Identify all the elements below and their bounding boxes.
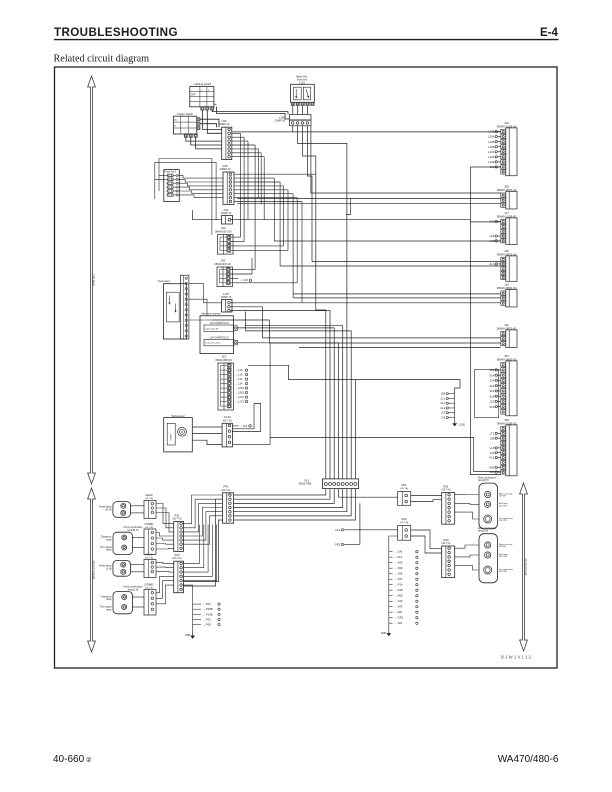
svg-text:→ J13: → J13 [239,424,248,428]
wire HEAD2 to P02 [156,562,174,565]
connector F05 [220,164,234,205]
svg-text:(02-?-A): (02-?-A) [173,557,182,560]
svg-text:24V 8W: 24V 8W [499,546,506,548]
svg-text:OFF: OFF [191,95,196,97]
wire vertical v280 [279,182,281,266]
wire motor spare pin to J05 [311,126,501,193]
wire F04 row [191,210,193,220]
svg-text:→ GR1: → GR1 [394,616,403,620]
svg-text:lamp: lamp [106,549,112,552]
ground P08 [192,633,194,636]
wire R31 to rear lamp RH [455,494,479,496]
wire vertical v261 [260,153,262,204]
labels J15 pins [235,368,248,404]
svg-text:L100: L100 [279,115,286,119]
svg-text:→ R14: → R14 [394,583,403,587]
svg-text:→ FF1: → FF1 [394,555,403,559]
svg-text:→ L263: → L263 [235,386,245,390]
wire vertical v297 [296,198,298,283]
ground L100 [454,420,456,423]
svg-text:→ P13B: → P13B [203,612,213,616]
svg-text:→ R18: → R18 [394,588,403,592]
connector COMB1 [144,522,156,555]
wire J03 pins [231,269,256,271]
svg-text:L103: L103 [488,150,495,154]
svg-text:08040-0071-00: 08040-0071-00 [215,230,232,233]
svg-text:COMB1: COMB1 [144,522,154,526]
wire J02 pins [231,236,240,238]
svg-text:FF2: FF2 [336,528,341,532]
svg-text:→ P01: → P01 [203,602,212,606]
wire to J19 [293,293,501,295]
svg-text:→ L14: → L14 [235,382,243,386]
wire vertical v255 [254,145,256,270]
wire vertical v274 to J17 row [274,178,501,241]
connector J07 [489,354,517,416]
cab harness arrow [88,76,96,484]
wire L107 to J19 pin3 [230,302,501,304]
svg-text:CNMP-10: CNMP-10 [221,296,232,299]
connector R30 [442,538,455,578]
wire L93 jogs [232,132,241,134]
motor front limit L131 [291,76,315,106]
svg-text:CL1: CL1 [440,401,445,405]
wire monitor L52 to bundle [238,328,335,479]
wire vertical v244 [243,137,245,241]
connector P02 [173,553,184,593]
wire R01 to R31 [411,495,442,497]
svg-text:LT1: LT1 [490,431,495,435]
svg-text:L86: L86 [441,392,446,396]
svg-text:24V 27W: 24V 27W [499,520,507,522]
wire L100 pin4 to J10 [307,126,312,262]
wire fuse rows to F05 [178,175,223,178]
svg-text:Rear combination: Rear combination [478,527,497,530]
connector FP1 [222,485,234,524]
wire power switch pins to L93 [186,137,222,141]
svg-text:S15: S15 [489,384,494,388]
signal name list R ground [389,550,418,630]
svg-text:WA470/480-6: WA470/480-6 [498,754,559,765]
wire tachometer to C140 [192,426,222,428]
wire monitor L54 to bundle [238,343,339,479]
wire vertical v293 [292,194,294,298]
svg-text:→ P06: → P06 [203,623,212,627]
wire F05 jogs [234,173,316,175]
svg-text:REAR FRAME: REAR FRAME [524,558,528,575]
label group L100 node [440,392,454,421]
svg-text:(02-?-A): (02-?-A) [222,489,231,492]
svg-text:S14: S14 [489,379,494,383]
svg-text:CL1: CL1 [440,396,445,400]
svg-text:→ L15: → L15 [235,373,243,377]
wire L93 to J04 [233,131,501,133]
wire vertical v264 [263,157,265,220]
wire lighting switch pins to L93 [202,110,221,129]
svg-text:R08: R08 [381,631,387,635]
svg-text:L104: L104 [488,155,495,159]
svg-text:Fuse No.1: Fuse No.1 [165,170,178,174]
wire motor to L100 [292,106,294,115]
wire comb lamp RH to COMB1 [133,537,145,539]
diagram border frame [55,67,558,668]
wire fuse strip feeds [189,283,222,302]
wire COMB2 to P02 [156,576,174,592]
wire vertical v288 [287,190,289,251]
svg-text:L108: L108 [488,140,495,144]
wire junction drop to FF2 GR1 [359,503,361,544]
svg-text:(02-?-A): (02-?-A) [400,487,408,490]
svg-text:P08: P08 [185,633,190,637]
svg-text:COMB2: COMB2 [144,582,154,586]
ground list P ground [193,602,221,632]
head lamp LH [99,561,130,577]
wire C140 loop [232,404,254,429]
svg-text:S21: S21 [489,389,494,393]
svg-text:AL1: AL1 [489,262,494,266]
head lamp RH [99,502,130,518]
connector J15 [215,355,233,410]
svg-text:CNMP-10: CNMP-10 [220,168,231,171]
svg-text:J17: J17 [441,411,446,415]
svg-text:→ L06: → L06 [394,550,402,554]
power switch [174,112,201,138]
svg-text:→ P03: → P03 [203,617,212,621]
svg-text:J16: J16 [441,415,446,419]
svg-text:24V 21W: 24V 21W [499,506,507,508]
svg-text:(02-?-A): (02-?-A) [442,489,451,492]
svg-text:S66: S66 [489,465,494,469]
connector J05 [497,185,517,209]
connector J04 [488,121,517,176]
connector J11 [497,323,517,347]
wire C140 top to J13 label [232,425,238,427]
wire P02 staircase [184,525,200,564]
svg-text:R01: R01 [402,483,407,487]
svg-text:B J W 1 4 1 1 2: B J W 1 4 1 1 2 [501,655,532,660]
wire L100 pin3 route [303,126,326,479]
svg-text:CNMP-10: CNMP-10 [275,120,286,123]
svg-text:CNMP-10: CNMP-10 [221,212,232,215]
svg-text:→ S38: → S38 [394,572,403,576]
svg-text:08040-0071-00: 08040-0071-00 [214,263,231,266]
wire C140 pin4 [232,444,270,446]
svg-text:S14: S14 [489,373,494,377]
svg-text:L52 CNMPS70-10: L52 CNMPS70-10 [210,323,229,325]
svg-text:→ L263: → L263 [235,391,245,395]
connector J19 [497,283,517,307]
wire L100 pin1 to J04 row [292,126,294,132]
svg-text:TROUBLESHOOTING: TROUBLESHOOTING [54,26,178,39]
svg-text:S19: S19 [489,405,494,409]
tachometer [164,414,193,452]
connector FL1 [299,478,359,488]
svg-text:(02-?-A): (02-?-A) [442,542,451,545]
svg-text:Lighting switch: Lighting switch [194,82,212,86]
svg-text:J08: J08 [490,436,495,440]
svg-text:(L.H): (L.H) [106,567,112,570]
connector R31 [442,484,455,524]
wire comb lamp LH to COMB2 [133,596,145,598]
front combination lamp RH [100,526,143,555]
svg-text:(02-?-B): (02-?-B) [145,527,153,529]
svg-text:front lamp HI: front lamp HI [206,327,219,330]
svg-text:08612-7608: 08612-7608 [299,483,312,486]
wire vertical v283 [282,186,284,246]
wire fuse bus loop [159,159,212,235]
svg-text:lamp: lamp [106,598,112,601]
svg-text:Machine monitor: Machine monitor [202,312,221,316]
bracket around J07 labels [475,370,499,418]
wire J11 branch down to J09 [269,343,271,445]
rear combination lamp LH [478,527,513,583]
svg-text:→ L33: → L33 [240,278,249,282]
wire to J05 [237,197,501,199]
svg-text:AC: AC [175,119,178,122]
svg-text:→ S21: → S21 [394,621,403,625]
wire HEAD1 to P01 [156,504,174,524]
svg-text:→ L213: → L213 [235,395,245,399]
connector C140 [222,415,232,447]
connector L93 [219,119,232,160]
svg-text:L54 CNMPS70-16: L54 CNMPS70-16 [210,337,229,339]
svg-text:→ S33: → S33 [394,566,403,570]
wire vertical v258 [257,149,259,199]
connector J17 [489,211,517,244]
connector F04 [221,208,233,224]
svg-text:M: M [181,431,183,434]
svg-text:→ S37: → S37 [394,577,403,581]
svg-text:L103: L103 [488,160,495,164]
svg-text:Rear combination: Rear combination [478,476,497,479]
front combination lamp LH [100,586,143,614]
svg-text:(02-?-A): (02-?-A) [223,419,232,422]
wire to J10 [312,261,501,263]
fuse box No.1 [164,170,180,202]
ground R08 [388,630,390,633]
header rule [54,39,559,41]
wire COMB1 to P01 [156,533,174,537]
svg-text:(R.H): (R.H) [106,508,112,511]
connector J02 [215,226,233,254]
svg-text:Fuse ass'y: Fuse ass'y [158,279,171,283]
svg-text:24V 8W: 24V 8W [499,496,506,498]
connector COMB2 [144,582,156,615]
svg-text:lamp: lamp [106,608,112,611]
connector R01 [398,483,411,505]
svg-text:CL2: CL2 [440,406,445,410]
wire bundle feed b [246,331,352,479]
svg-text:24V 27W: 24V 27W [499,571,507,573]
svg-text:GR1: GR1 [335,542,341,546]
svg-text:→ P06B: → P06B [203,607,213,611]
connector J09 [489,418,517,476]
svg-text:lamp(L.H): lamp(L.H) [128,588,139,591]
slow blow fuse box [158,279,187,339]
svg-text:L64: L64 [490,234,495,238]
svg-text:→ L14: → L14 [235,377,243,381]
svg-text:Related circuit diagram: Related circuit diagram [54,54,150,65]
svg-text:(02-?-A): (02-?-A) [400,521,408,524]
wire lighting switch pin3 to motor row [212,110,288,114]
svg-text:J03: J03 [490,451,495,455]
wire P02 bottom pin to ground collector [184,585,193,604]
rear frame harness arrow [520,483,528,651]
wire L107 pin3 to bundle [230,311,330,479]
svg-text:R02: R02 [402,517,407,521]
svg-text:→ L173: → L173 [235,400,245,404]
wire FL1 pin4 to R01 [339,489,398,498]
svg-text:40-660: 40-660 [53,754,85,765]
svg-text:FL1: FL1 [489,456,494,460]
connector J03 [214,259,232,287]
wire lamp RH to HEAD1 [131,505,144,507]
svg-text:J22: J22 [490,400,495,404]
connector L107 [221,292,232,312]
wire R02 to signal list collector [389,536,398,552]
svg-text:CAB MAIN: CAB MAIN [92,274,96,287]
wire vertical v248 [247,141,249,220]
svg-text:08040-0803-00: 08040-0803-00 [215,359,232,362]
svg-text:→ S61: → S61 [394,610,403,614]
svg-text:lamp(R.H): lamp(R.H) [478,480,489,482]
svg-text:lamp(L.H): lamp(L.H) [478,531,488,533]
svg-text:Power switch: Power switch [177,112,193,116]
svg-text:24V 21W: 24V 21W [499,556,507,558]
svg-text:E-4: E-4 [540,26,559,39]
svg-text:Tachometer: Tachometer [171,414,185,418]
wire vertical v470 to J09 [470,222,500,475]
wire P01 staircase to FP1 [184,495,223,524]
svg-text:→ L15: → L15 [235,368,243,372]
svg-text:HEAD: HEAD [145,493,152,497]
connector J10 [489,249,517,281]
wire J04 J01 pin to J17 S33 [470,167,500,222]
machine monitor [200,312,238,354]
connector P01 [173,513,184,551]
connector R02 [398,517,411,540]
wire lamp LH to HEAD2 [131,564,144,566]
connector HEAD2 [144,552,156,577]
connector HEAD1 [144,493,156,518]
wire FL1 to FP1 staircase [234,489,326,495]
svg-text:FRONT FRAME: FRONT FRAME [92,561,96,580]
lighting switch [190,82,214,110]
wire R02 to R30 [411,530,442,549]
wire power switch side pins [200,119,219,127]
svg-text:L100: L100 [459,422,466,426]
svg-text:S66: S66 [489,368,494,372]
svg-text:L106: L106 [488,135,495,139]
wire L100 pin2 tall drop [298,126,347,479]
front frame harness arrow [88,488,96,652]
svg-text:lamp(R.H): lamp(R.H) [128,529,139,532]
wire bundle 8th drop [354,380,356,479]
svg-text:CNMP-10: CNMP-10 [219,123,230,126]
wire vertical v302 [301,202,303,303]
connector fuse strip [180,275,189,339]
svg-text:LL8: LL8 [490,446,495,450]
svg-text:HEAD: HEAD [145,552,152,556]
svg-text:(02-?-B): (02-?-B) [145,587,153,589]
svg-text:→ S43: → S43 [394,599,403,603]
svg-text:TIMER: TIMER [171,434,173,441]
connector L100 [275,115,312,126]
svg-text:B: B [175,126,177,128]
svg-text:S18: S18 [489,394,494,398]
svg-text:L105: L105 [488,145,495,149]
rear combination lamp RH [478,476,513,529]
wire J15 pin1 Z-jog to node group [248,365,460,393]
wire R30 to rear lamp LH [455,545,479,548]
wire bundle feed a [246,312,343,479]
wire FP1 left exits [184,499,223,586]
svg-text:→ S43: → S43 [394,605,403,609]
svg-text:②: ② [86,756,92,764]
wire to J11 [230,307,501,338]
svg-text:→ S40: → S40 [394,561,403,565]
svg-text:→ R08: → R08 [394,594,403,598]
svg-text:lamp: lamp [106,538,112,541]
svg-text:S66: S66 [489,470,494,474]
svg-text:Hi beam switch: Hi beam switch [206,342,222,345]
svg-text:(02-?-B): (02-?-B) [145,557,153,559]
svg-text:(02-?-B): (02-?-B) [145,498,153,500]
wire vertical v240 [239,133,241,237]
svg-text:(02-?-A): (02-?-A) [173,518,182,521]
